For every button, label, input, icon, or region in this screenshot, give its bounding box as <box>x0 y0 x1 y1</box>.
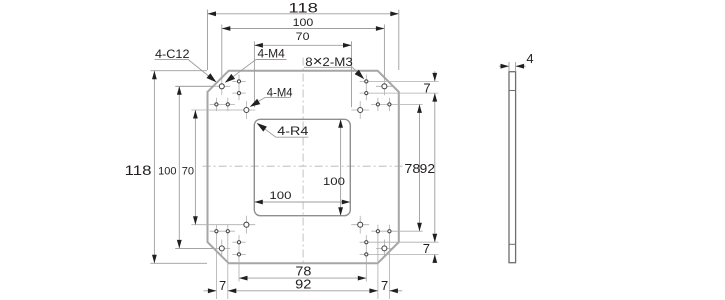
svg-text:7: 7 <box>423 81 430 96</box>
svg-text:92: 92 <box>420 161 435 176</box>
centerline M3 horizontal pair bottom-left with extensions to bottom dims <box>210 230 235 232</box>
svg-text:7: 7 <box>423 241 430 256</box>
crosshair outer M4 hole bottom-right <box>376 247 393 249</box>
svg-text:118: 118 <box>125 162 152 178</box>
dimension 100 left <box>175 85 213 87</box>
svg-text:100: 100 <box>293 17 314 29</box>
side view chamfer line bottom <box>509 243 516 245</box>
svg-text:118: 118 <box>288 0 318 16</box>
crosshair outer M4 hole top-left <box>175 85 230 87</box>
centerline M3 horizontal pair bottom-right with extensions <box>371 230 423 232</box>
svg-text:70: 70 <box>182 165 194 177</box>
crosshair inner M4 hole top-right <box>351 109 369 111</box>
centerline M3 horizontal pair top-left <box>210 103 235 105</box>
svg-text:92: 92 <box>295 277 311 292</box>
centerline M3 vertical pair top-right with extensions to right dims <box>365 75 367 101</box>
svg-text:4-M4: 4-M4 <box>258 46 286 60</box>
M3 holes horizontal pair top-right <box>376 103 379 106</box>
M3 holes horizontal pair bottom-left <box>215 230 218 233</box>
outer M4 hole top-right <box>382 84 387 89</box>
dimension 70 left <box>194 110 196 225</box>
M3 holes vertical pair bottom-left <box>237 241 240 244</box>
dimension 4 side view thickness <box>508 62 510 72</box>
plate outline (front view, chamfered square) <box>208 71 399 264</box>
svg-text:70: 70 <box>296 31 310 43</box>
dimension 7 bottom-right (outside arrow) <box>389 290 402 292</box>
M3 holes vertical pair top-right <box>365 80 368 83</box>
dimension 92 right <box>434 93 436 242</box>
inner M4 hole top-left <box>244 108 249 113</box>
M3 holes vertical pair top-left <box>237 80 240 83</box>
side view plate edge (thickness 4) <box>509 72 516 263</box>
svg-text:100: 100 <box>269 190 291 202</box>
vertical centerline of plate <box>302 58 304 266</box>
dimension 118 left <box>150 70 207 72</box>
svg-text:4: 4 <box>526 51 533 66</box>
horizontal centerline of plate <box>203 165 403 167</box>
inner M4 hole bottom-right <box>358 222 363 227</box>
svg-text:7: 7 <box>219 278 226 293</box>
side view chamfer line top <box>509 90 516 92</box>
dimension 118 top <box>207 10 209 71</box>
inner M4 hole top-right <box>358 108 363 113</box>
dimension 78 bottom <box>239 277 366 279</box>
svg-text:7: 7 <box>381 278 388 293</box>
crosshair outer M4 hole top-right <box>376 85 393 87</box>
svg-text:100: 100 <box>158 165 176 177</box>
dimension 7 bottom-right (outside arrow below) <box>434 254 436 263</box>
dimension 70 top <box>253 41 255 107</box>
dimension 7 top-right (outside arrow above) <box>434 71 436 81</box>
central square cutout 100x100 with R4 corners <box>254 119 350 215</box>
crosshair inner M4 hole bottom-right <box>351 224 369 226</box>
dimension 7 bottom-left (outside arrow) <box>204 290 217 292</box>
inner M4 hole bottom-left <box>244 222 249 227</box>
dimension 92 bottom <box>228 290 378 292</box>
centerline M3 horizontal pair top-right with extension to right 78 dim <box>371 103 423 105</box>
centerline M3 vertical pair bottom-right with extensions <box>365 235 367 282</box>
outer M4 hole top-left <box>219 84 224 89</box>
svg-text:4-C12: 4-C12 <box>155 47 190 61</box>
outer M4 hole bottom-left <box>219 246 224 251</box>
centerline M3 vertical pair bottom-left with extension to bottom 78 dim <box>238 235 240 282</box>
M3 holes vertical pair bottom-right <box>365 241 368 244</box>
dimension 100 inner vertical (cutout height) <box>340 119 342 215</box>
outer M4 hole bottom-right <box>382 246 387 251</box>
crosshair outer M4 hole bottom-left <box>175 247 230 249</box>
centerline M3 vertical pair top-left <box>238 75 240 101</box>
dimension 100 inner horizontal (cutout width) <box>254 201 350 203</box>
crosshair inner M4 hole bottom-left <box>191 224 255 226</box>
crosshair inner M4 hole top-left <box>191 109 255 111</box>
svg-text:100: 100 <box>323 176 345 188</box>
dimension 100 top <box>221 25 223 79</box>
M3 holes horizontal pair bottom-right <box>376 230 379 233</box>
dimension 78 right <box>419 104 421 231</box>
M3 holes horizontal pair top-left <box>215 103 218 106</box>
svg-text:78: 78 <box>404 161 420 176</box>
svg-text:4-R4: 4-R4 <box>277 124 308 138</box>
